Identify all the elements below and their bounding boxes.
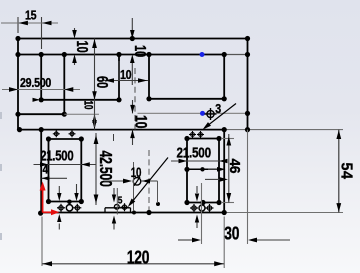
svg-text:4: 4 <box>43 164 49 177</box>
pocket1 bottom edge <box>41 99 119 101</box>
slot A top edge <box>49 138 82 140</box>
slot A right edge <box>80 139 82 202</box>
gap dim arrow x76 <box>76 184 78 193</box>
dim 21.500 right line <box>171 160 226 162</box>
slot B bottom edge <box>187 202 219 204</box>
short ext line x=113.5 upper <box>113 134 115 141</box>
svg-text:120: 120 <box>127 247 150 267</box>
hole points above slot A <box>53 130 60 137</box>
pocket2 left edge <box>148 55 150 99</box>
svg-text:5: 5 <box>118 195 123 207</box>
dim 21.500 left line <box>34 164 97 166</box>
hole cluster below slot A <box>57 204 65 212</box>
dia10 ext line near centerline <box>133 162 135 211</box>
svg-text:21.500: 21.500 <box>40 147 73 164</box>
second edge right gray part <box>224 54 247 56</box>
hole dot on slot B mid line <box>200 167 204 171</box>
hole cluster bottom middle <box>114 204 119 209</box>
dim 120 line <box>42 263 224 265</box>
slot A bottom edge <box>49 201 82 203</box>
hole symbol dia10 circle <box>133 178 141 186</box>
svg-text:3: 3 <box>215 101 221 116</box>
arrow at slot B right edge y=179 <box>205 178 220 180</box>
section split line <box>18 129 224 131</box>
pocket2 right edge <box>223 55 225 99</box>
svg-text:21.500: 21.500 <box>177 144 211 161</box>
dia10 ext line to hole <box>157 181 159 203</box>
slot B mid construction line <box>187 168 219 170</box>
hole points above slot B <box>189 131 196 138</box>
gray line y=113.5 right <box>138 112 248 114</box>
small dot on bottom edge <box>132 211 136 215</box>
svg-text:10: 10 <box>131 164 142 180</box>
left edge ui marks <box>0 112 2 119</box>
dim 10 mid-h line <box>104 80 148 82</box>
svg-text:10: 10 <box>73 41 92 54</box>
hole point dot <box>156 202 160 206</box>
svg-text:54: 54 <box>337 163 355 180</box>
gap dim arrows x197 <box>196 186 198 193</box>
hole symbol dia3 <box>205 108 217 120</box>
dim 30 ext lines <box>201 183 203 244</box>
bottom middle recess box right <box>130 208 132 213</box>
dia10 symbol slash <box>134 177 140 186</box>
slot B left edge <box>186 139 188 203</box>
pocket1 right edge <box>118 55 120 100</box>
dim 29.500 line <box>2 89 80 91</box>
dim 120 ext lines <box>41 217 43 267</box>
vertex dots <box>15 36 20 41</box>
slot B right edge <box>218 139 220 203</box>
dia10 dim line right <box>141 180 158 182</box>
bottom section left edge <box>40 130 42 213</box>
dim 60 line <box>94 39 96 130</box>
bottom edge gray extension right <box>224 212 343 214</box>
dia3 leader line <box>205 104 237 129</box>
dia10 leader line <box>130 158 169 206</box>
blue point on gray line <box>200 111 205 116</box>
svg-text:10: 10 <box>81 101 94 110</box>
part second edge <box>18 54 224 56</box>
svg-text:60: 60 <box>93 76 110 88</box>
dim 10 mid-v line <box>132 100 134 113</box>
dim 15 extension lines <box>17 17 19 33</box>
step edge y=114 left <box>18 113 64 115</box>
dim 10 left-v arrows <box>92 91 97 100</box>
svg-text:46: 46 <box>227 159 243 174</box>
origin marker red <box>42 188 44 213</box>
section split gray extension right <box>224 129 343 131</box>
svg-text:15: 15 <box>25 7 37 22</box>
slot A left edge <box>48 139 50 202</box>
dim 54 line <box>338 130 340 213</box>
dim 10 mid-h ext <box>118 61 120 81</box>
dim 10 left-v ext line <box>64 113 99 115</box>
slot B top edge <box>187 138 219 140</box>
dim 46 line <box>228 134 230 203</box>
dim 10 top-left arrows <box>74 28 76 33</box>
svg-text:30: 30 <box>224 224 239 244</box>
vertical edge x=64 <box>63 55 65 115</box>
part left edge <box>17 39 19 130</box>
dim 30 line <box>178 239 193 241</box>
svg-text:29.500: 29.500 <box>20 75 52 90</box>
dashed centerline top section <box>134 68 136 130</box>
gap dim arrows x59 <box>58 186 60 193</box>
dim 15 line <box>1 22 58 24</box>
gap dim x114 with text 5 <box>113 188 115 195</box>
small arrow at pocket1 bottom left <box>33 99 38 101</box>
dim 4 leader <box>42 177 68 179</box>
blue point on second edge <box>200 52 205 57</box>
dim 10 cl-top line <box>131 18 133 33</box>
dim 42.500 line <box>95 133 97 205</box>
part bottom edge <box>41 212 224 214</box>
bottom middle recess box left <box>104 208 106 213</box>
dia10 dim line left <box>104 180 131 182</box>
hole cluster below slot B <box>190 204 198 212</box>
bottom middle recess box top <box>105 207 131 209</box>
arrow at slot B mid line right <box>208 168 217 170</box>
svg-text:10: 10 <box>131 45 150 58</box>
svg-text:10: 10 <box>131 115 149 128</box>
dim 46 ext lines <box>221 138 234 140</box>
pocket2 bottom edge <box>149 98 224 100</box>
svg-text:10: 10 <box>120 67 132 82</box>
dot on slot A bottom edge <box>67 200 72 205</box>
vertical edge x=41 upper <box>40 55 42 100</box>
part right edge <box>247 39 249 130</box>
part top edge <box>18 38 248 40</box>
dashed construction line bottom section <box>148 150 150 215</box>
bottom section right edge <box>223 130 225 213</box>
